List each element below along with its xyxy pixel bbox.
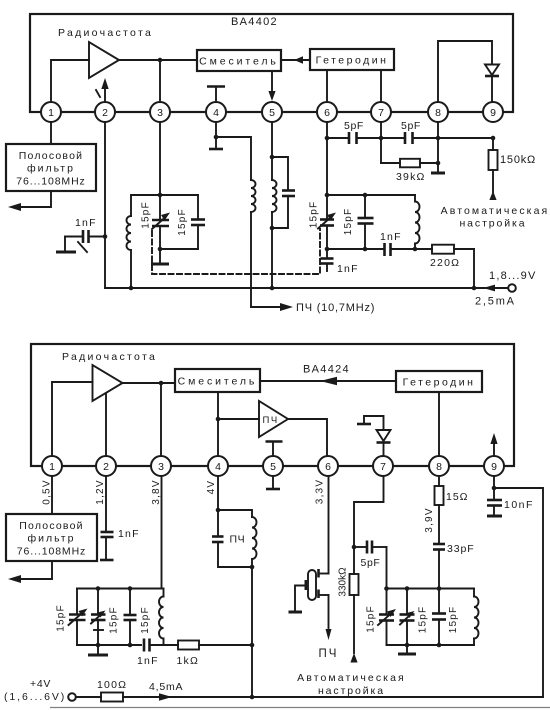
pin 2 xyxy=(96,456,116,476)
svg-text:(1,6...6V): (1,6...6V) xyxy=(4,691,66,703)
IF output arrow ПЧ (10,7MHz) xyxy=(251,302,375,314)
pin 1 xyxy=(41,102,61,122)
svg-text:1,8...9V: 1,8...9V xyxy=(489,270,537,282)
resistor R7 100Ω xyxy=(76,679,127,702)
inductor L7 xyxy=(474,589,479,646)
node top bar left tank xyxy=(77,586,164,591)
wire IF primary to IF output xyxy=(250,212,252,307)
svg-text:4V: 4V xyxy=(206,480,217,495)
wire pin6 down xyxy=(325,122,330,197)
svg-text:ПЧ (10,7MHz): ПЧ (10,7MHz) xyxy=(296,302,375,314)
svg-text:Радиочастота: Радиочастота xyxy=(62,351,157,363)
pin 4 xyxy=(206,102,226,122)
inductor L4 xyxy=(413,195,420,251)
svg-text:76...108MHz: 76...108MHz xyxy=(16,176,85,188)
op-amp U1 IC box BA4402 xyxy=(30,14,513,112)
pin 6 xyxy=(317,102,337,122)
svg-text:фильтр: фильтр xyxy=(27,163,75,175)
wire 5pF to right tank xyxy=(386,547,388,589)
pin 9 xyxy=(483,102,503,122)
trimmer capacitor CT3 15pF xyxy=(56,589,88,646)
wire pin9 junction xyxy=(492,476,497,490)
svg-text:Смеситель: Смеситель xyxy=(178,376,258,388)
wire pin3 to tank xyxy=(158,122,163,197)
svg-text:настройка: настройка xyxy=(318,685,385,697)
antenna input arrow xyxy=(8,191,51,211)
wire pin4 junction xyxy=(214,122,219,139)
resistor R5 330kΩ xyxy=(338,547,359,653)
svg-text:Полосовой: Полосовой xyxy=(19,150,83,162)
capacitor C6 15pF xyxy=(343,195,374,251)
capacitor C14 33pF xyxy=(433,505,475,589)
svg-text:Радиочастота: Радиочастота xyxy=(58,27,153,39)
wire pin1 to bandpass filter xyxy=(51,476,53,514)
svg-text:BA4424: BA4424 xyxy=(303,364,350,376)
svg-text:1,2V: 1,2V xyxy=(95,479,106,504)
pin 7 xyxy=(371,102,391,122)
trimmer capacitor CT4 15pF xyxy=(91,589,120,648)
shield dashed line xyxy=(152,229,320,274)
arrow oscillator to mixer xyxy=(260,377,396,386)
capacitor C11 1nF series xyxy=(137,639,178,668)
svg-text:3,9V: 3,9V xyxy=(424,507,435,532)
wire pin2 to amp xyxy=(105,394,107,456)
svg-text:2,5mA: 2,5mA xyxy=(475,296,516,308)
internal ground T at pin 5 xyxy=(266,442,283,457)
RF amplifier A1 (Радиочастота) xyxy=(58,27,153,78)
svg-text:10nF: 10nF xyxy=(504,499,534,511)
wire oscillator to pin 8 xyxy=(438,392,440,456)
svg-text:Гетеродин: Гетеродин xyxy=(403,377,476,389)
wire pin1 to amp input xyxy=(51,60,89,103)
capacitor C9 1nF at pin2 xyxy=(100,476,140,560)
svg-text:1: 1 xyxy=(49,461,55,473)
svg-text:Автоматическая: Автоматическая xyxy=(297,672,406,684)
svg-text:2: 2 xyxy=(103,461,109,473)
wire pin7 down xyxy=(380,122,382,163)
AFC arrow (Автоматическая настройка) xyxy=(297,653,406,697)
capacitor C12 of IF tank xyxy=(212,510,254,569)
svg-text:1nF: 1nF xyxy=(337,263,359,275)
ground T at pin 5 external xyxy=(266,476,280,489)
IF transformer primary L2 xyxy=(251,180,256,212)
wire pin1 to amp input xyxy=(52,382,93,456)
svg-text:5pF: 5pF xyxy=(361,557,381,569)
svg-text:2: 2 xyxy=(102,107,108,119)
wire IF tank to supply bus xyxy=(250,567,255,699)
arrow at pin 2 (AGC input) xyxy=(96,78,109,102)
wire R3 to supply bus xyxy=(472,249,477,290)
svg-text:6: 6 xyxy=(325,461,331,473)
capacitor C4 5pF pins 6-7 xyxy=(327,120,404,144)
svg-text:3: 3 xyxy=(158,461,164,473)
ground right tank xyxy=(398,645,416,654)
svg-text:15pF: 15pF xyxy=(448,606,459,634)
svg-text:ПЧ: ПЧ xyxy=(319,648,339,660)
capacitor C7 1nF series xyxy=(380,231,415,256)
pin 4 xyxy=(208,456,228,476)
mixer block (Смеситель) xyxy=(197,50,281,71)
scan artifact line xyxy=(50,707,550,709)
resistor R2 150kΩ xyxy=(489,138,537,192)
capacitor C5 5pF pins 7-8 xyxy=(379,120,496,144)
pin 8 xyxy=(428,102,448,122)
svg-text:4,5mA: 4,5mA xyxy=(149,681,183,693)
svg-text:+4V: +4V xyxy=(30,678,51,690)
pin 9 xyxy=(484,456,504,476)
svg-text:9: 9 xyxy=(490,107,496,119)
resistor R4 1kΩ xyxy=(177,641,255,668)
svg-text:15pF: 15pF xyxy=(109,606,120,634)
wire pin5 junction xyxy=(270,122,275,159)
svg-text:0,5V: 0,5V xyxy=(42,479,53,504)
pin 3 xyxy=(151,456,171,476)
pin 7 xyxy=(373,456,393,476)
resistor R6 15Ω xyxy=(435,476,469,505)
svg-text:фильтр: фильтр xyxy=(28,533,76,545)
arrow at pin 9 (supply sense) xyxy=(490,433,497,456)
wire pin9 to supply bus right side xyxy=(494,488,543,697)
transistor Q1 dual-gate MOSFET xyxy=(295,569,329,611)
inductor L6 (ПЧ IF coil) xyxy=(218,510,257,567)
svg-text:15pF: 15pF xyxy=(309,201,320,229)
wire oscillator to pin 6 xyxy=(326,70,328,103)
arrow oscillator to mixer xyxy=(281,56,310,64)
capacitor C8 1nF bypass below trimmer xyxy=(321,249,359,275)
capacitor C3 across secondary xyxy=(272,157,295,228)
bandpass filter block (Полосовой фильтр) xyxy=(6,514,97,561)
svg-text:15pF: 15pF xyxy=(140,606,151,634)
svg-text:76...108MHz: 76...108MHz xyxy=(17,546,86,558)
inductor L5 xyxy=(159,589,164,646)
node bottom bar right tank xyxy=(387,643,475,648)
trimmer capacitor CT5 15pF xyxy=(366,589,397,646)
IF amplifier A3 (ПЧ) xyxy=(218,401,288,437)
svg-text:BA4402: BA4402 xyxy=(231,16,278,28)
trimmer capacitor CT1 15pF xyxy=(141,195,171,251)
svg-text:4: 4 xyxy=(213,107,219,119)
svg-text:8: 8 xyxy=(436,461,442,473)
capacitor C10 15pF xyxy=(124,589,152,648)
trimmer capacitor CT6 15pF xyxy=(400,589,429,646)
resistor R3 220Ω xyxy=(415,245,474,269)
inductor L1 xyxy=(127,195,134,290)
wire IF amp output to pin 6 xyxy=(288,419,327,456)
svg-text:ПЧ: ПЧ xyxy=(263,415,279,426)
svg-text:3,3V: 3,3V xyxy=(315,479,326,504)
svg-text:5: 5 xyxy=(269,107,275,119)
svg-text:7: 7 xyxy=(380,461,386,473)
svg-text:15pF: 15pF xyxy=(177,208,188,236)
mixer block (Смеситель) xyxy=(175,369,260,392)
AFC input arrow (Автоматическая настройка) xyxy=(441,191,550,230)
capacitor C16 10nF xyxy=(487,488,534,515)
wire pin1 to bandpass filter xyxy=(50,122,52,144)
wire mixer to pin 4 xyxy=(216,392,221,456)
wire pin4 junction xyxy=(216,476,221,512)
node top bar of pin3 tank xyxy=(131,194,198,196)
wire node amp output to pin 3 xyxy=(159,60,161,103)
svg-text:6: 6 xyxy=(324,107,330,119)
svg-text:5pF: 5pF xyxy=(401,120,421,132)
trimmer capacitor CT2 15pF xyxy=(309,195,337,251)
wire pin4 to IF transformer primary xyxy=(216,137,251,180)
svg-text:5pF: 5pF xyxy=(344,120,364,132)
supply bus wire 1,8...9V xyxy=(105,285,508,292)
wire pin3 to tank xyxy=(161,476,163,589)
svg-text:8: 8 xyxy=(435,107,441,119)
svg-text:150kΩ: 150kΩ xyxy=(500,154,536,166)
wire pin8 down xyxy=(437,122,439,163)
svg-text:1nF: 1nF xyxy=(75,217,97,229)
svg-text:7: 7 xyxy=(378,107,384,119)
svg-text:15pF: 15pF xyxy=(56,604,67,632)
svg-text:330kΩ: 330kΩ xyxy=(338,567,349,597)
svg-text:39kΩ: 39kΩ xyxy=(396,171,426,183)
pin 8 xyxy=(429,456,449,476)
node bottom bar of pin3 tank xyxy=(160,248,198,250)
varactor diode D1 internal, pin8 to pin9 xyxy=(438,41,499,102)
wire pin2 down to bus xyxy=(104,122,106,288)
antenna input arrow xyxy=(8,561,52,583)
wire node amp output to pin3 xyxy=(160,383,162,456)
wire amp output to mixer xyxy=(123,381,176,386)
capacitor C13 5pF xyxy=(354,541,387,570)
capacitor C15 15pF xyxy=(432,589,459,646)
RF amplifier A2 (Радиочастота) xyxy=(62,351,157,401)
svg-text:1kΩ: 1kΩ xyxy=(177,655,200,667)
svg-text:3,8V: 3,8V xyxy=(151,479,162,504)
arrow mixer to pin 5 xyxy=(268,71,275,101)
svg-text:15pF: 15pF xyxy=(343,208,354,236)
svg-text:9: 9 xyxy=(491,461,497,473)
op-amp U2 IC box BA4424 xyxy=(31,344,514,466)
svg-text:15pF: 15pF xyxy=(418,606,429,634)
pin 3 xyxy=(150,102,170,122)
ground left tank xyxy=(88,645,108,655)
node bottom bar left tank xyxy=(77,644,141,646)
wire oscillator to pin 7 xyxy=(380,70,382,103)
svg-text:1nF: 1nF xyxy=(137,655,159,667)
pin 5 xyxy=(263,456,283,476)
pin 2 xyxy=(95,102,115,122)
supply terminal +4V xyxy=(4,678,76,703)
svg-text:33pF: 33pF xyxy=(447,543,475,555)
IF transformer secondary L3 xyxy=(270,157,277,290)
wire amp output to mixer xyxy=(119,58,197,63)
svg-text:15pF: 15pF xyxy=(366,605,377,633)
svg-text:220Ω: 220Ω xyxy=(430,257,460,269)
svg-text:Полосовой: Полосовой xyxy=(19,520,83,532)
svg-text:3: 3 xyxy=(157,107,163,119)
local oscillator block (Гетеродин) xyxy=(310,49,394,70)
supply bus wire with current arrow 4,5mA xyxy=(123,681,543,701)
svg-text:Гетеродин: Гетеродин xyxy=(316,55,389,67)
ground at pin4 xyxy=(209,137,223,149)
svg-text:15Ω: 15Ω xyxy=(446,491,469,503)
wire pin6 to MOSFET drain xyxy=(328,476,330,574)
pin 1 xyxy=(42,456,62,476)
capacitor C2 15pF xyxy=(177,195,205,249)
svg-text:1nF: 1nF xyxy=(380,231,402,243)
svg-text:100Ω: 100Ω xyxy=(97,679,127,691)
ground C16 xyxy=(487,515,502,518)
svg-text:1nF: 1nF xyxy=(118,528,140,540)
ground pin3 tank xyxy=(151,249,169,264)
svg-text:Смеситель: Смеситель xyxy=(199,56,279,68)
pin 6 xyxy=(318,456,338,476)
IF output arrow ПЧ xyxy=(319,595,339,660)
resistor R1 39kΩ xyxy=(381,159,440,183)
bandpass filter block (Полосовой фильтр) xyxy=(6,144,96,191)
svg-text:4: 4 xyxy=(215,461,221,473)
node bottom bar pin6 tank xyxy=(327,248,384,250)
capacitor C1 1nF at pin2 xyxy=(65,217,107,252)
ground MOSFET gate xyxy=(289,611,303,614)
node top bar right tank xyxy=(384,586,474,591)
svg-text:15pF: 15pF xyxy=(141,201,152,229)
ground at R1 xyxy=(431,163,445,173)
internal ground T at pin 4 xyxy=(207,87,225,103)
ground for C1 xyxy=(56,237,76,253)
pin 5 xyxy=(262,102,282,122)
svg-text:ПЧ: ПЧ xyxy=(230,534,246,546)
local oscillator block (Гетеродин) xyxy=(396,371,482,392)
svg-text:настройка: настройка xyxy=(459,218,526,230)
supply terminal xyxy=(475,270,537,308)
svg-text:5: 5 xyxy=(270,461,276,473)
wire pin7 to 5pF/330k junction xyxy=(352,476,384,549)
varactor diode D2 internal at pin 7 xyxy=(357,416,391,456)
svg-text:Автоматическая: Автоматическая xyxy=(441,205,550,217)
node top bar of pin6 tank xyxy=(327,193,415,198)
svg-text:1: 1 xyxy=(48,107,54,119)
